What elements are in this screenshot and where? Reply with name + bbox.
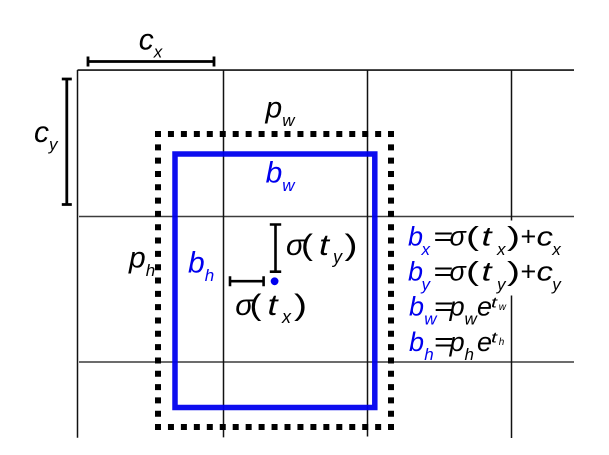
- svg-text:bw: bw: [266, 157, 297, 196]
- svg-text:σ(ty): σ(ty): [286, 229, 358, 267]
- svg-text:bw=pwetw: bw=pwetw: [409, 292, 507, 329]
- svg-text:bh=pheth: bh=pheth: [409, 327, 505, 364]
- svg-text:σ(tx): σ(tx): [235, 289, 307, 327]
- grid horizontal line H2: [79, 216, 574, 218]
- white backing for equations lines 1-2: [406, 221, 576, 296]
- blue predicted box b: [175, 154, 375, 408]
- sigma(t_y) bracket: [270, 225, 281, 272]
- grid vertical line V4: [511, 70, 513, 438]
- dotted prior box p top edge: [155, 131, 394, 137]
- svg-text:bh: bh: [188, 246, 214, 285]
- dotted prior box p left edge: [155, 131, 161, 430]
- c_y dimension bracket: [62, 79, 72, 205]
- svg-text:cx: cx: [139, 24, 163, 62]
- dotted prior box p bottom edge: [155, 424, 394, 430]
- grid vertical line V1: [77, 70, 79, 438]
- grid horizontal line H3: [79, 361, 574, 363]
- svg-text:pw: pw: [265, 92, 297, 131]
- dotted prior box p right edge: [388, 131, 394, 430]
- sigma(t_x) bracket: [230, 276, 264, 286]
- c_x dimension bracket: [88, 57, 214, 67]
- grid vertical line V2: [223, 70, 225, 437]
- grid vertical line V3: [367, 70, 369, 437]
- svg-text:cy: cy: [34, 116, 59, 154]
- grid horizontal line H1: [78, 69, 575, 71]
- svg-text:ph: ph: [128, 242, 155, 281]
- box center dot: [271, 277, 279, 285]
